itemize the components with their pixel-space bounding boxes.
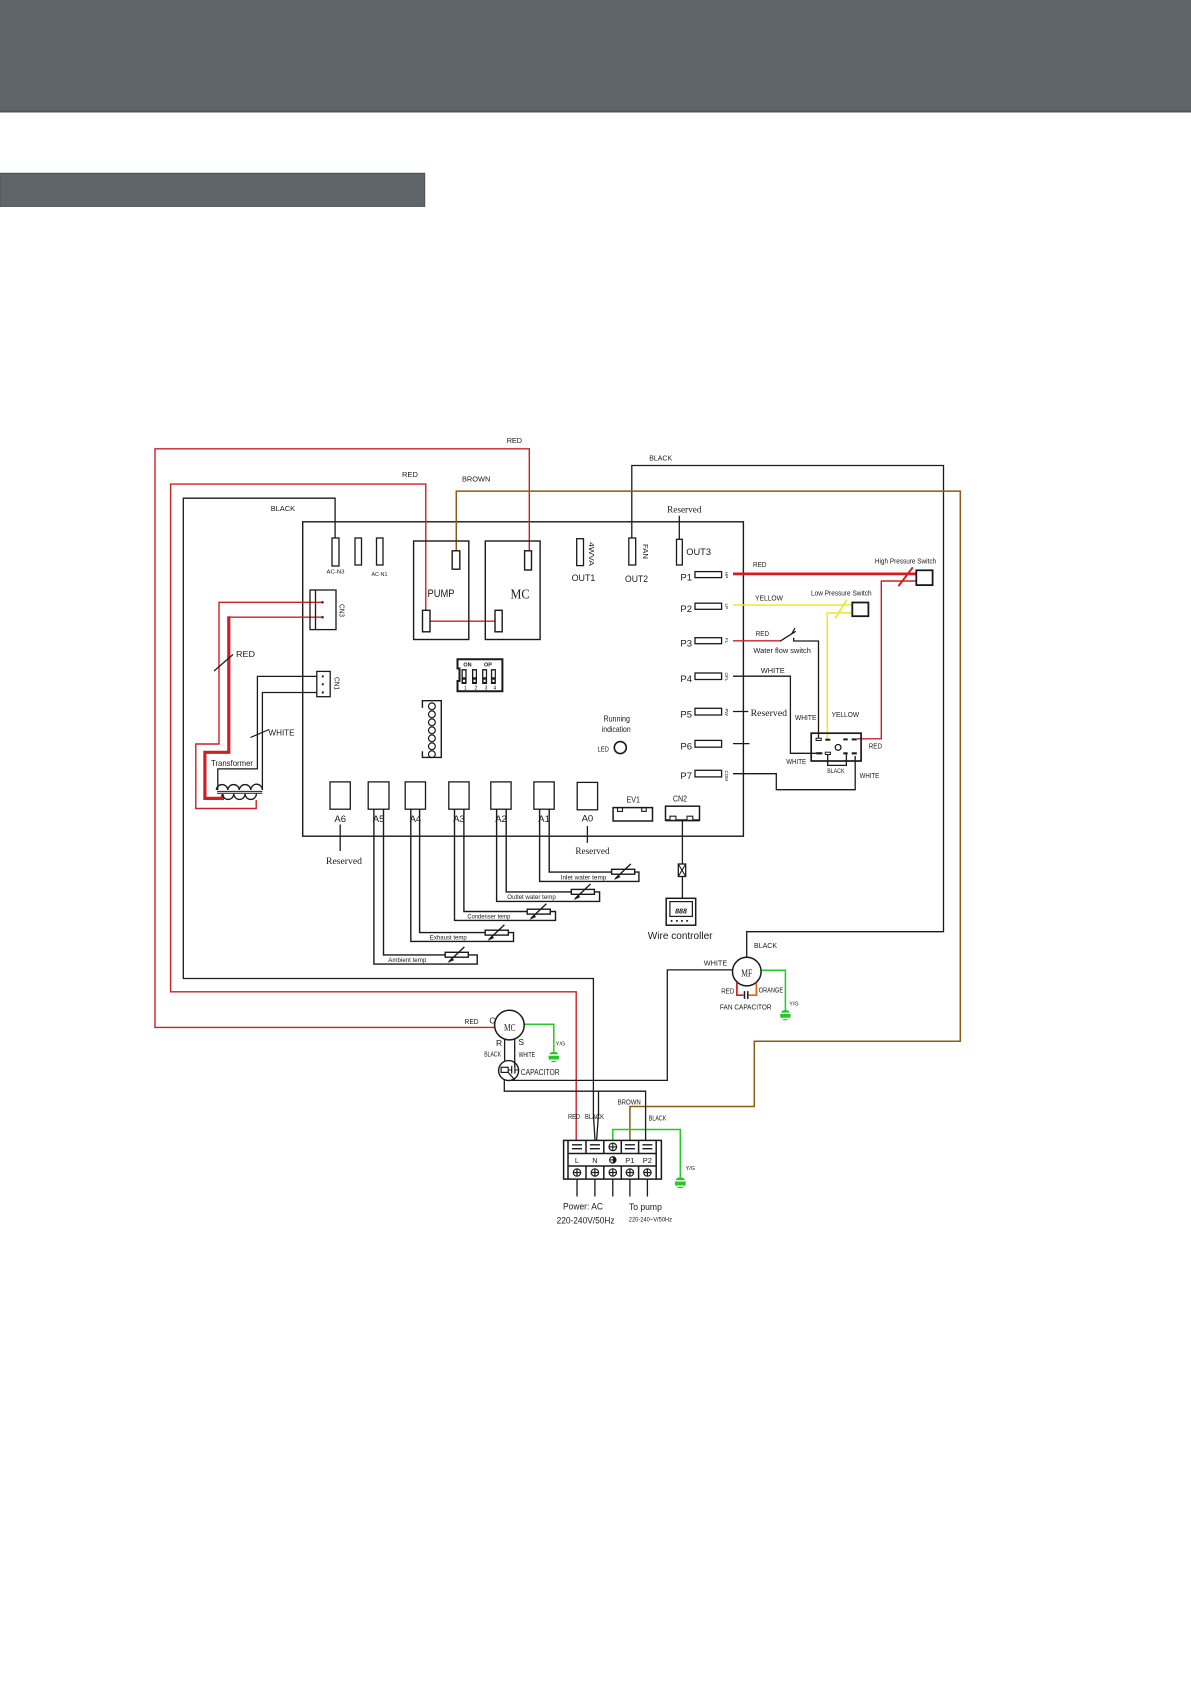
svg-text:RED: RED — [507, 436, 523, 445]
svg-text:2: 2 — [475, 686, 478, 692]
svg-text:3: 3 — [485, 686, 488, 692]
svg-text:Y/G: Y/G — [789, 1001, 798, 1007]
svg-text:CN3: CN3 — [338, 604, 345, 617]
svg-text:CAPACITOR: CAPACITOR — [521, 1067, 560, 1077]
svg-text:RED: RED — [721, 989, 734, 996]
svg-text:C: C — [489, 1016, 495, 1026]
svg-text:N: N — [592, 1156, 597, 1165]
svg-text:OUT1: OUT1 — [572, 573, 596, 583]
svg-text:OFL: OFL — [724, 673, 729, 682]
svg-text:Running: Running — [603, 714, 630, 723]
svg-text:Wire controller: Wire controller — [648, 930, 713, 942]
svg-text:FAN CAPACITOR: FAN CAPACITOR — [720, 1005, 772, 1012]
svg-text:BROWN: BROWN — [462, 475, 490, 484]
svg-text:ORANGE: ORANGE — [759, 988, 784, 995]
svg-text:OUT2: OUT2 — [625, 574, 648, 584]
svg-text:P1: P1 — [625, 1156, 634, 1165]
svg-text:WHITE: WHITE — [269, 728, 295, 737]
svg-text:AC-N1: AC-N1 — [372, 572, 388, 578]
svg-text:FL: FL — [724, 638, 729, 644]
svg-text:P6: P6 — [680, 742, 692, 753]
svg-text:Water flow switch: Water flow switch — [753, 648, 811, 655]
svg-text:RED: RED — [402, 470, 418, 479]
svg-text:ON: ON — [463, 662, 471, 668]
svg-text:BLACK: BLACK — [754, 941, 777, 950]
svg-text:BLACK: BLACK — [827, 768, 845, 775]
svg-text:4WVA: 4WVA — [587, 542, 594, 566]
svg-text:Ambient temp: Ambient temp — [388, 957, 426, 964]
svg-text:LED: LED — [598, 746, 609, 753]
svg-text:R: R — [496, 1038, 502, 1048]
svg-text:Y/G: Y/G — [556, 1041, 565, 1047]
svg-text:A6: A6 — [334, 814, 346, 825]
svg-text:P1: P1 — [680, 573, 692, 584]
svg-text:LP: LP — [724, 604, 729, 610]
svg-text:BLACK: BLACK — [484, 1052, 501, 1059]
svg-text:Low Pressure Switch: Low Pressure Switch — [811, 591, 872, 598]
svg-text:HP: HP — [724, 572, 729, 578]
svg-text:220-240~V/50Hz: 220-240~V/50Hz — [629, 1217, 672, 1224]
svg-text:MC: MC — [504, 1022, 516, 1034]
svg-text:Reserved: Reserved — [575, 846, 610, 856]
svg-text:COM: COM — [724, 771, 729, 782]
svg-text:FAN: FAN — [641, 544, 648, 559]
svg-text:PW: PW — [724, 709, 729, 717]
svg-text:To pump: To pump — [629, 1202, 662, 1213]
svg-text:Transformer: Transformer — [211, 758, 253, 768]
svg-text:WHITE: WHITE — [860, 773, 880, 780]
svg-text:EV1: EV1 — [627, 795, 641, 804]
svg-text:WHITE: WHITE — [786, 759, 806, 766]
svg-text:MF: MF — [741, 967, 752, 979]
svg-text:BLACK: BLACK — [585, 1114, 604, 1121]
svg-text:YELLOW: YELLOW — [755, 595, 783, 602]
svg-text:PUMP: PUMP — [428, 588, 455, 600]
svg-text:indication: indication — [602, 725, 631, 734]
svg-text:RED: RED — [465, 1017, 480, 1026]
svg-text:220-240V/50Hz: 220-240V/50Hz — [557, 1216, 615, 1227]
svg-text:Outlet water temp: Outlet water temp — [507, 894, 556, 901]
svg-text:P2: P2 — [680, 604, 692, 615]
svg-text:1: 1 — [464, 686, 467, 692]
svg-text:Condenser temp: Condenser temp — [467, 914, 510, 921]
svg-text:AC-N3: AC-N3 — [327, 570, 345, 576]
svg-text:P5: P5 — [680, 710, 692, 721]
svg-text:S: S — [518, 1037, 524, 1047]
svg-text:BROWN: BROWN — [618, 1100, 641, 1107]
svg-text:888: 888 — [675, 909, 687, 916]
svg-text:RED: RED — [869, 743, 882, 750]
svg-text:Exhaust temp: Exhaust temp — [430, 935, 467, 942]
svg-text:Reserved: Reserved — [667, 505, 702, 515]
svg-text:BLACK: BLACK — [649, 1115, 667, 1122]
svg-text:CN2: CN2 — [673, 794, 688, 803]
svg-text:Power: AC: Power: AC — [563, 1202, 603, 1213]
svg-text:WHITE: WHITE — [761, 668, 785, 675]
svg-text:RED: RED — [753, 562, 766, 569]
svg-text:A0: A0 — [582, 814, 594, 825]
svg-text:WHITE: WHITE — [519, 1052, 536, 1059]
svg-text:P7: P7 — [680, 771, 692, 782]
svg-text:WHITE: WHITE — [795, 715, 817, 722]
svg-text:RED: RED — [568, 1114, 580, 1121]
svg-text:Y/G: Y/G — [686, 1166, 695, 1172]
svg-text:BLACK: BLACK — [271, 504, 295, 513]
svg-text:High Pressure Switch: High Pressure Switch — [875, 558, 936, 565]
svg-text:RED: RED — [756, 631, 769, 638]
svg-text:OUT3: OUT3 — [686, 547, 711, 558]
svg-text:CN1: CN1 — [333, 677, 340, 690]
svg-text:WHITE: WHITE — [704, 958, 728, 967]
svg-text:4: 4 — [493, 686, 496, 692]
svg-text:Inlet water temp: Inlet water temp — [561, 874, 607, 881]
svg-text:P4: P4 — [680, 674, 692, 685]
svg-text:P2: P2 — [643, 1156, 652, 1165]
svg-text:Reserved: Reserved — [751, 708, 788, 718]
svg-text:L: L — [575, 1156, 579, 1165]
svg-text:OP: OP — [484, 662, 492, 668]
svg-text:MC: MC — [511, 587, 530, 602]
svg-text:Reserved: Reserved — [326, 856, 363, 866]
svg-text:BLACK: BLACK — [649, 454, 672, 463]
svg-text:P3: P3 — [680, 639, 692, 650]
svg-text:RED: RED — [236, 650, 255, 659]
svg-text:YELLOW: YELLOW — [832, 712, 860, 719]
